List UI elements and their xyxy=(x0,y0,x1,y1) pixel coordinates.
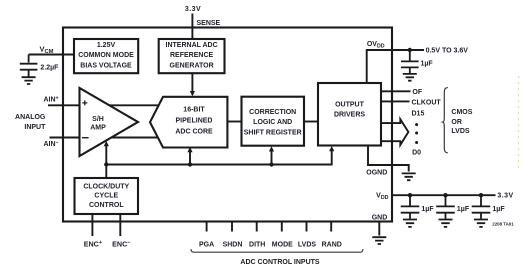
arrowhead clock to output drivers xyxy=(329,146,334,151)
svg-text:ADC CONTROL INPUTS: ADC CONTROL INPUTS xyxy=(240,259,320,266)
wire AIN- (analog input negative to ADC core) xyxy=(50,137,161,139)
svg-text:CMOS: CMOS xyxy=(451,109,472,116)
wire clock distribution line xyxy=(106,150,331,165)
svg-text:D15: D15 xyxy=(412,111,425,118)
capacitor 1uF (VDD bypass 1) xyxy=(401,195,420,219)
svg-text:2208 TA01: 2208 TA01 xyxy=(492,222,514,227)
pin DITH stub xyxy=(256,222,258,232)
wire clock to correction logic (arrow up) xyxy=(271,151,273,165)
svg-text:AIN+: AIN+ xyxy=(43,96,58,104)
pin PGA stub xyxy=(206,222,208,232)
decorative yellow dashed line xyxy=(518,76,520,168)
op-amp S/H AMP xyxy=(80,88,139,156)
svg-text:ENC−: ENC− xyxy=(112,239,130,248)
pin SHDN stub xyxy=(231,222,233,232)
wire AIN+ (analog input positive to ADC core) xyxy=(48,104,161,106)
wire CLKOUT output xyxy=(381,100,410,102)
wire data bus arrow (parallel outputs) xyxy=(381,119,408,145)
block OUTPUT DRIVERS xyxy=(318,83,381,146)
ground (VDD bypass 1) xyxy=(403,220,417,227)
svg-text:AIN−: AIN− xyxy=(43,140,58,148)
svg-text:ANALOG: ANALOG xyxy=(15,114,46,121)
svg-text:SHIFT REGISTER: SHIFT REGISTER xyxy=(244,129,302,136)
svg-text:CONTROL: CONTROL xyxy=(89,202,124,209)
svg-text:CYCLE: CYCLE xyxy=(94,193,118,200)
node VDD junction 2 xyxy=(443,193,447,197)
wire SENSE (3.3V to reference generator) xyxy=(191,14,193,40)
wire VDD supply xyxy=(392,194,496,196)
svg-text:PGA: PGA xyxy=(199,241,214,248)
svg-text:CLKOUT: CLKOUT xyxy=(412,99,442,106)
svg-text:LVDS: LVDS xyxy=(298,241,316,248)
node VDD junction 1 xyxy=(408,193,412,197)
svg-text:16-BIT: 16-BIT xyxy=(183,107,205,114)
svg-text:2.2µF: 2.2µF xyxy=(40,64,59,71)
capacitor 2.2uF (VCM bypass) xyxy=(20,55,38,77)
wire clock to ADC core (arrow up) xyxy=(189,152,191,165)
svg-text:SENSE: SENSE xyxy=(197,20,221,27)
svg-text:1µF: 1µF xyxy=(421,206,434,213)
svg-text:MODE: MODE xyxy=(272,241,293,248)
svg-text:1µF: 1µF xyxy=(492,206,505,213)
node VDD junction 3 xyxy=(479,193,483,197)
node ellipsis dots D14..D1 xyxy=(415,123,418,126)
svg-text:DITH: DITH xyxy=(249,241,265,248)
svg-text:COMMON MODE: COMMON MODE xyxy=(78,52,134,59)
svg-text:VCM: VCM xyxy=(39,45,53,56)
wire ADC core to correction logic xyxy=(227,121,241,123)
svg-text:GND: GND xyxy=(372,215,388,222)
svg-text:INPUT: INPUT xyxy=(24,124,46,131)
wire clock box to clock line xyxy=(105,165,107,179)
wire reference generator to ADC core (arrow down) xyxy=(191,73,193,91)
svg-text:3.3V: 3.3V xyxy=(185,6,201,13)
brace (output group) xyxy=(443,88,448,153)
block CLOCK/DUTY CYCLE CONTROL xyxy=(75,178,139,214)
pin RAND stub xyxy=(330,222,332,232)
svg-text:1.25V: 1.25V xyxy=(97,42,116,49)
svg-text:S/H: S/H xyxy=(92,116,104,123)
svg-text:1µF: 1µF xyxy=(421,60,434,67)
capacitor 1uF (VDD bypass 3) xyxy=(472,195,491,219)
svg-text:CORRECTION: CORRECTION xyxy=(249,109,296,116)
svg-text:PIPELINED: PIPELINED xyxy=(176,118,213,125)
svg-text:CLOCK/DUTY: CLOCK/DUTY xyxy=(83,184,129,191)
capacitor 1uF (VDD bypass 2) xyxy=(436,195,455,219)
svg-text:REFERENCE: REFERENCE xyxy=(170,52,214,59)
ground (VCM capacitor) xyxy=(22,77,36,84)
wire clock to S/H amp (arrow up) xyxy=(105,146,107,165)
pin MODE stub xyxy=(281,222,283,232)
svg-text:OR: OR xyxy=(451,119,462,126)
ground (VDD bypass 3) xyxy=(474,220,488,227)
wire VCM xyxy=(29,54,74,56)
svg-text:D0: D0 xyxy=(412,150,421,157)
svg-text:RAND: RAND xyxy=(322,241,342,248)
pin + (noninverting input of S/H amp) xyxy=(82,100,87,105)
wire OGND xyxy=(368,146,409,172)
svg-text:DRIVERS: DRIVERS xyxy=(334,112,365,119)
block 1.25V COMMON MODE BIAS VOLTAGE xyxy=(74,39,138,73)
svg-text:LOGIC AND: LOGIC AND xyxy=(253,119,292,126)
pin - (inverting input of S/H amp) xyxy=(82,137,89,139)
svg-text:OUTPUT: OUTPUT xyxy=(335,101,365,108)
node clock junction at correction branch xyxy=(269,162,273,166)
svg-text:GENERATOR: GENERATOR xyxy=(170,62,214,69)
ground (VDD bypass 2) xyxy=(439,220,453,227)
svg-text:LVDS: LVDS xyxy=(451,128,469,135)
node clock junction at S/H branch xyxy=(104,162,108,166)
wire ENC+ xyxy=(91,214,93,236)
svg-text:ADC CORE: ADC CORE xyxy=(175,129,213,136)
wire ENC- xyxy=(119,214,121,236)
svg-text:1µF: 1µF xyxy=(457,206,470,213)
svg-text:OF: OF xyxy=(412,89,422,96)
pin LVDS stub xyxy=(306,222,308,232)
wire GND to ground xyxy=(378,222,380,236)
capacitor 1uF (OVDD bypass) xyxy=(401,50,419,73)
node OVDD junction xyxy=(408,48,412,52)
svg-text:OGND: OGND xyxy=(366,170,387,177)
svg-text:AMP: AMP xyxy=(90,124,106,131)
wire correction logic to output drivers xyxy=(304,121,318,123)
svg-text:ENC+: ENC+ xyxy=(84,239,102,248)
block INTERNAL ADC REFERENCE GENERATOR xyxy=(159,39,225,73)
node clock junction at ADC core branch xyxy=(188,162,192,166)
svg-text:3.3V: 3.3V xyxy=(497,192,513,199)
svg-text:BIAS VOLTAGE: BIAS VOLTAGE xyxy=(80,62,132,69)
ground (OGND) xyxy=(402,173,416,180)
wire OF output xyxy=(381,90,411,92)
chip outline xyxy=(63,28,392,222)
wire OVDD (output supply) xyxy=(367,50,424,83)
block 16-BIT PIPELINED ADC CORE xyxy=(150,97,227,148)
svg-text:0.5V TO 3.6V: 0.5V TO 3.6V xyxy=(426,47,469,54)
ground (OVDD capacitor) xyxy=(403,74,417,81)
block CORRECTION LOGIC AND SHIFT REGISTER xyxy=(242,97,305,146)
ground (GND pin) xyxy=(372,237,386,244)
bracket ADC control inputs group xyxy=(191,249,363,252)
svg-text:INTERNAL ADC: INTERNAL ADC xyxy=(166,42,218,49)
svg-text:SHDN: SHDN xyxy=(223,241,243,248)
